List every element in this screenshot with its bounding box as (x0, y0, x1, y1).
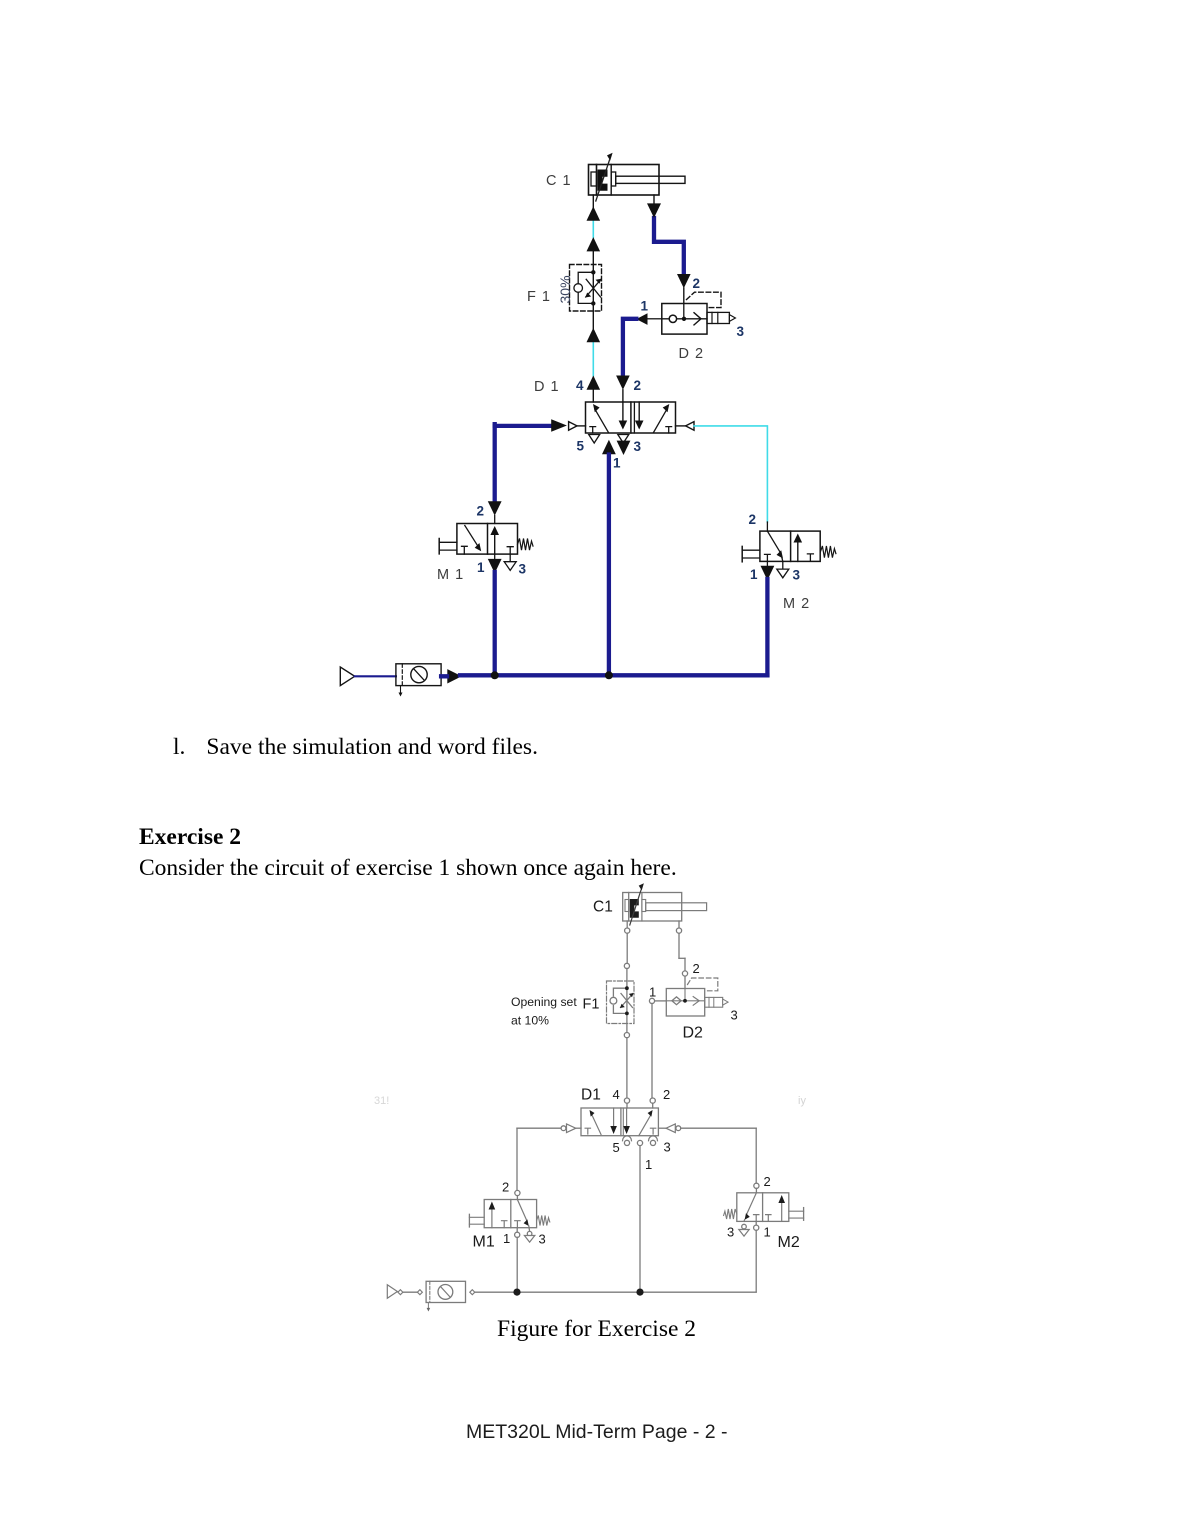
flow arrow up (587, 328, 601, 342)
svg-text:iу: iу (798, 1095, 806, 1107)
svg-text:D 1: D 1 (534, 379, 560, 395)
svg-text:D 2: D 2 (679, 346, 705, 362)
svg-text:F 1: F 1 (527, 289, 551, 305)
document text (173, 734, 538, 761)
wire D1 pilot branch down to M1 port 2 (navy) (493, 424, 497, 501)
supply line (navy) (441, 675, 767, 676)
svg-text:4: 4 (613, 1087, 620, 1102)
M2 fig2 pushbutton (right) (789, 1208, 804, 1221)
M2 pushbutton (742, 546, 760, 561)
D1 right box internals (635, 402, 672, 433)
svg-text:1: 1 (649, 985, 656, 1000)
wire C1 left port to F1 (fig2) (624, 921, 630, 981)
svg-text:3: 3 (731, 1008, 738, 1023)
junction at D1 (fig2) (636, 1289, 643, 1296)
svg-text:2: 2 (502, 1180, 509, 1195)
wire D1 port1 to supply (navy) (607, 455, 611, 676)
D2 pilot dashed line (687, 292, 722, 307)
valve D2 (quick exhaust) (662, 304, 736, 335)
wire D1 right pilot to M2 (fig2) (754, 1128, 759, 1193)
junction at M1 (fig2) (513, 1289, 520, 1296)
valve M2 (fig2) (737, 1193, 789, 1222)
wire source to service unit (fig2) (403, 1291, 418, 1293)
M1 fig2 right box internals (515, 1200, 529, 1228)
D2 pilot dashed (fig2) (688, 978, 718, 991)
M2 fig2 left box internals (744, 1193, 759, 1222)
air service unit (396, 664, 441, 697)
D1 port 5 exhaust (589, 435, 600, 444)
junction at D1 (605, 671, 613, 679)
svg-text:1: 1 (477, 560, 485, 575)
D1 left box internals (590, 402, 627, 433)
M2 right box internals (794, 534, 814, 562)
svg-text:5: 5 (613, 1140, 620, 1155)
wire C1 left port to F1 (with flow arrows) (592, 195, 594, 272)
M1 spring (518, 539, 534, 551)
D1 fig2 port 5 exhaust (623, 1136, 632, 1146)
svg-text:C1: C1 (593, 899, 613, 916)
valve D1 (fig2) (581, 1108, 658, 1136)
source connector diamond (398, 1290, 403, 1295)
M2 left box internals (765, 532, 784, 562)
svg-text:3: 3 (539, 1232, 546, 1247)
svg-text:C 1: C 1 (546, 173, 572, 189)
wire D2 port1 to D1 port 2 (navy) (623, 319, 636, 375)
svg-text:2: 2 (693, 961, 700, 976)
wire D1 left pilot to M1 (fig2) (515, 1128, 520, 1199)
M2 fig2 right box internals (766, 1195, 785, 1221)
svg-text:3: 3 (793, 568, 801, 583)
svg-text:31!: 31! (374, 1095, 389, 1107)
D1 right pilot (676, 422, 695, 431)
flow arrow down (647, 203, 661, 218)
svg-text:3: 3 (737, 324, 745, 339)
M2 port 3 exhaust (777, 561, 789, 577)
compressed air source (340, 667, 354, 686)
svg-text:M 2: M 2 (783, 596, 810, 612)
svg-text:3: 3 (727, 1225, 734, 1240)
M2 port 1 arrow and wire to supply (761, 561, 775, 675)
D1 port 3 flow arrow down (617, 441, 631, 455)
D1 left pilot (569, 422, 586, 431)
junction at M1 (491, 671, 499, 679)
air service unit (fig2) (426, 1281, 465, 1311)
M2 fig2 port 3 exhaust (739, 1224, 749, 1236)
svg-text:1: 1 (503, 1231, 510, 1246)
M2 fig2 spring (left) (724, 1209, 737, 1219)
D1 fig2 port 3 exhaust (649, 1136, 658, 1146)
svg-text:M1: M1 (473, 1234, 495, 1251)
svg-text:2: 2 (693, 276, 701, 291)
wire F1 to D1 port 4 (fig2) (624, 1024, 629, 1109)
service unit connector diamond (417, 1290, 422, 1295)
svg-text:3: 3 (519, 562, 527, 577)
wire source to service unit (355, 675, 396, 677)
flow arrow right (551, 419, 567, 432)
D1 fig2 port 1 (637, 1140, 642, 1289)
supply flow arrow (447, 669, 461, 683)
svg-text:2: 2 (764, 1174, 771, 1189)
M1 port 1 arrow and wire to supply (488, 554, 502, 675)
M1 port 3 exhaust (504, 554, 516, 570)
valve M2 (3/2 pushbutton) (766, 522, 768, 531)
svg-text:1: 1 (613, 456, 621, 471)
wire C1 right port to D2 (fig2) (676, 921, 687, 989)
valve D1 (5/2) (586, 402, 676, 433)
D1 fig2 left box internals (585, 1108, 617, 1134)
svg-text:D1: D1 (581, 1087, 601, 1104)
M1 left box internals (462, 526, 482, 555)
D2 port 1 arrow (636, 313, 647, 325)
TOP DIAGRAM (340, 153, 836, 697)
M1 fig2 port 1 and wire to supply (515, 1228, 520, 1292)
svg-text:F1: F1 (583, 997, 600, 1013)
valve M1 (3/2 pushbutton) (488, 424, 502, 523)
svg-text:2: 2 (749, 512, 757, 527)
wire F1 to D1 port 4 (592, 303, 594, 402)
compressed air source (fig2) (387, 1285, 397, 1299)
wire C1 right port to D2 port 2 (navy) (654, 195, 684, 304)
cylinder C1 (fig2) (623, 893, 707, 922)
D1 fig2 right pilot (658, 1124, 756, 1133)
D1 fig2 left pilot (517, 1124, 581, 1133)
BOTTOM DIAGRAM (374, 883, 806, 1311)
M1 pushbutton (439, 539, 457, 554)
D1 port 1 flow arrow up (602, 440, 616, 454)
svg-text:3: 3 (664, 1140, 671, 1155)
M2 fig2 port 1 and wire to supply (754, 1221, 759, 1292)
D1 fig2 right box internals (623, 1108, 656, 1136)
M1 fig2 port 3 exhaust (524, 1226, 534, 1242)
svg-text:2: 2 (477, 504, 485, 519)
wire D1 right pilot to M2 port 2 (cyan) (694, 426, 767, 522)
service unit outlet diamond (470, 1290, 475, 1295)
M1 fig2 spring (537, 1216, 550, 1226)
C1 actuation arrow (596, 153, 613, 201)
svg-text:30%: 30% (557, 275, 573, 303)
D1 port 3 exhaust (618, 435, 629, 444)
cylinder C1 (589, 165, 686, 196)
svg-text:4: 4 (576, 378, 584, 393)
M1 fig2 left box internals (489, 1202, 507, 1228)
flow control F1 (fig2) (607, 981, 635, 1024)
D2 port 1 connector (fig2) (649, 998, 666, 1108)
M2 spring (820, 546, 836, 558)
M1 port 2 arrow (488, 501, 502, 515)
svg-text:3: 3 (634, 439, 642, 454)
flow control valve F1 (570, 265, 602, 312)
M1 fig2 pushbutton (469, 1214, 484, 1227)
svg-text:1: 1 (764, 1225, 771, 1240)
svg-text:2: 2 (663, 1087, 670, 1102)
supply line (fig2) (475, 1291, 756, 1293)
svg-text:1: 1 (641, 299, 649, 314)
flow arrow up (587, 237, 601, 251)
valve D2 (fig2) (666, 989, 728, 1017)
D2 port 2 arrow (677, 274, 691, 288)
svg-text:D2: D2 (683, 1025, 704, 1042)
svg-text:5: 5 (577, 439, 585, 454)
port 4 arrow (587, 376, 601, 390)
svg-text:at 10%: at 10% (511, 1014, 549, 1028)
M1 right box internals (490, 526, 513, 554)
svg-text:Opening set: Opening set (511, 995, 577, 1009)
valve M1 (fig2) (484, 1200, 536, 1228)
svg-text:M 1: M 1 (437, 567, 464, 583)
svg-text:M2: M2 (778, 1234, 800, 1251)
wire M1 to D1 left pilot (navy) (495, 424, 552, 428)
flow arrow up (587, 206, 601, 220)
svg-text:1: 1 (645, 1157, 652, 1172)
C1 fig2 actuation arrow (630, 883, 644, 925)
svg-text:2: 2 (634, 378, 642, 393)
svg-text:1: 1 (750, 567, 758, 582)
D1 port 2 arrow (616, 376, 630, 390)
